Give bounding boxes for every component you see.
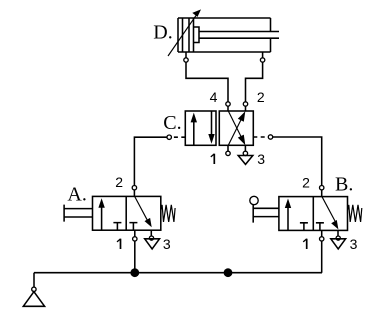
valve C port 3 node [243, 145, 247, 155]
valve B port 3 node [336, 230, 340, 240]
cylinder D rod [199, 32, 279, 39]
valve A up arrow [98, 198, 104, 230]
valve B button actuator plunger [253, 205, 279, 223]
valve B diagonal flow arrow 2-3 [322, 197, 338, 230]
junction dot valve A [130, 268, 139, 277]
wire pilot right to valve B port 2 [273, 137, 322, 185]
svg-text:3: 3 [257, 151, 265, 167]
pilot right node [268, 135, 272, 139]
cylinder D body [178, 18, 271, 52]
valve B blocked port T right [316, 223, 324, 231]
air source triangle [23, 292, 44, 307]
valve C cross flow arrow 1-2 [228, 111, 245, 145]
svg-text:2: 2 [302, 174, 310, 190]
valve A diagonal flow arrow 2-3 [135, 197, 152, 228]
valve C exhaust triangle port 3 [238, 156, 253, 165]
valve B blocked port T left [300, 223, 308, 231]
valve A pushbutton actuator [64, 205, 92, 222]
wire cylinder-left to valve C port 4 [186, 62, 228, 101]
wire pilot left to valve A port 2 [134, 137, 167, 185]
valve A port 2 node [132, 186, 136, 197]
air source node [32, 287, 36, 291]
cylinder D rod block [194, 27, 200, 43]
label 1 (valve A) [117, 239, 121, 249]
valve A port 3 node [149, 230, 153, 240]
valve B return spring [348, 205, 362, 222]
valve C right position box [219, 111, 253, 145]
pilot line left of valve C (dash-dot) [172, 136, 185, 138]
valve C cross flow arrow 4-3 [228, 111, 245, 145]
svg-text:3: 3 [350, 236, 358, 252]
valve A return spring [161, 205, 175, 222]
svg-text:A.: A. [67, 184, 86, 206]
valve C port 4 stub [227, 106, 229, 111]
valve A divider [125, 196, 127, 230]
valve B port 1 node [320, 230, 324, 241]
junction dot valve C [224, 268, 233, 277]
valve B body [279, 197, 348, 231]
pilot line right of valve C (dash-dot) [253, 136, 268, 138]
label 1 (valve C) [211, 154, 215, 164]
valve C port 1 node [226, 145, 230, 155]
valve C port 4 node [226, 102, 230, 106]
valve A port 1 node [133, 230, 137, 241]
wire cylinder-right to valve C port 2 [246, 62, 263, 101]
svg-text:D.: D. [153, 21, 172, 43]
valve A blocked port T right [129, 223, 137, 231]
valve B port 2 node [320, 186, 324, 197]
valve C left position box [185, 111, 216, 145]
cylinder D adjustability arrow [168, 9, 201, 56]
wire valve B port 1 to bus [321, 241, 323, 273]
valve A exhaust triangle port 3 [145, 239, 160, 249]
svg-text:B.: B. [335, 174, 353, 196]
cylinder D piston [189, 18, 194, 52]
valve A blocked port T left [113, 223, 121, 231]
valve C port 2 stub [245, 106, 247, 111]
cylinder D left cushion line [182, 18, 184, 52]
svg-text:4: 4 [210, 89, 218, 105]
cylinder right port node [260, 52, 264, 62]
valve B up arrow [285, 199, 291, 231]
svg-text:3: 3 [163, 236, 171, 252]
svg-text:2: 2 [115, 174, 123, 190]
svg-text:C.: C. [163, 112, 181, 134]
label 1 (valve B) [303, 239, 307, 249]
wire valve A port 1 to bus [134, 241, 136, 273]
valve C down arrow [208, 111, 214, 144]
valve A body [93, 196, 161, 230]
valve C up arrow [191, 113, 197, 146]
wire bus to air source [33, 273, 35, 287]
svg-text:2: 2 [257, 89, 265, 105]
cylinder left port node [184, 52, 188, 62]
valve B button actuator knob [250, 196, 258, 204]
supply bus wire [34, 272, 322, 274]
valve B exhaust triangle port 3 [331, 239, 346, 249]
valve C port 2 node [243, 102, 247, 106]
valve B divider [312, 197, 314, 231]
pilot left node [167, 135, 171, 139]
